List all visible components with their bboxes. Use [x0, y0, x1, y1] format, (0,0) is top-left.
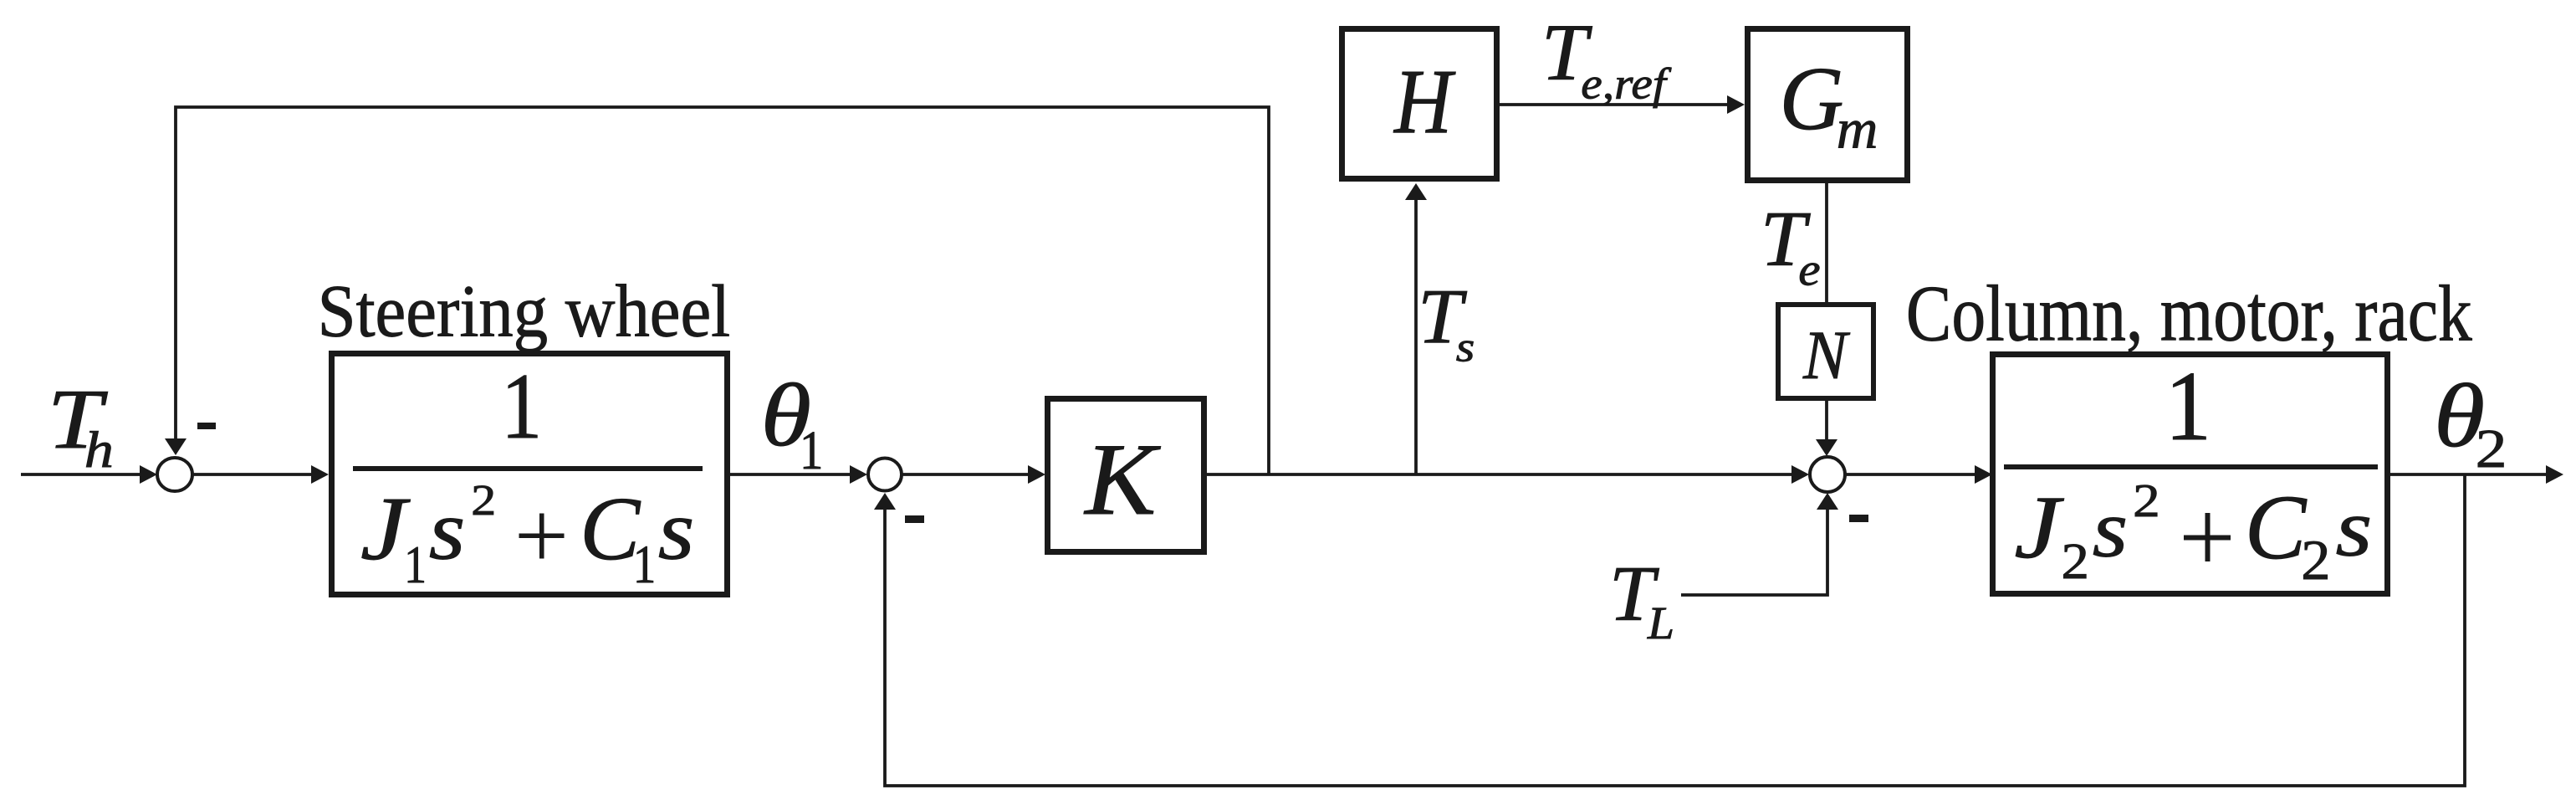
wire Ts branch up into block H: [1414, 198, 1418, 474]
svg-text:H: H: [1393, 51, 1456, 153]
summing junction 3: [1810, 457, 1845, 492]
wire block N down to summing junction 3: [1825, 401, 1828, 442]
svg-text:1: 1: [800, 420, 823, 481]
label theta1: [761, 365, 812, 464]
block1 denominator s: [429, 484, 466, 577]
svg-text:1: 1: [501, 354, 542, 458]
arrowhead into column block: [1975, 465, 1992, 484]
label TL - T: [1609, 549, 1660, 638]
svg-text:L: L: [1647, 598, 1674, 649]
svg-text:s: s: [429, 484, 466, 577]
svg-text:s: s: [658, 484, 695, 577]
block K: [1048, 399, 1204, 552]
svg-text:2: 2: [2133, 475, 2160, 527]
block2 denominator s: [2093, 484, 2128, 575]
block1 numerator 1: [501, 354, 542, 458]
arrowhead TL into summing junction 3: [1817, 493, 1838, 510]
wire summing junction 3 to column block: [1845, 473, 1978, 476]
fraction bar block 1: [353, 466, 703, 471]
block1 denominator superscript 2: [471, 477, 496, 525]
svg-text:2: 2: [2301, 528, 2330, 592]
svg-text:h: h: [84, 422, 114, 479]
block2 denominator C: [2245, 476, 2308, 578]
label theta1 subscript 1: [800, 420, 823, 481]
svg-text:e: e: [1798, 244, 1820, 295]
arrowhead final theta2 output: [2546, 465, 2563, 484]
label N: [1802, 318, 1851, 394]
arrowhead Th into summing junction 1: [140, 465, 157, 484]
arrowhead N output into summing junction 3: [1816, 439, 1837, 456]
svg-text:K: K: [1083, 423, 1161, 537]
fraction bar block 2: [2004, 464, 2378, 469]
summing junction 2: [868, 459, 902, 491]
block column motor rack 1/(J2s^2+C2s): [1993, 355, 2388, 594]
label Gm - G: [1780, 49, 1844, 149]
block1 denominator final s: [658, 484, 695, 577]
label K: [1083, 423, 1161, 537]
svg-text:J: J: [360, 479, 411, 579]
block1 denominator J: [360, 479, 411, 579]
wire steering-wheel block to summing junction 2 (theta1): [730, 473, 854, 476]
label Column, motor, rack: [1906, 270, 2472, 358]
wire summing junction 1 to steering-wheel block: [192, 473, 316, 476]
wire Th input arrow line: [21, 473, 142, 476]
svg-text:2: 2: [2476, 419, 2507, 479]
wire block K to summing junction 3 (Ts line): [1207, 473, 1796, 476]
block2 denominator J: [2014, 478, 2064, 577]
svg-text:2: 2: [2062, 532, 2089, 589]
block1 denominator C: [580, 479, 641, 579]
wire summing junction 2 to block K: [902, 473, 1034, 476]
svg-text:Column, motor, rack: Column, motor, rack: [1906, 270, 2472, 358]
arrowhead Te,ref into block Gm: [1727, 95, 1745, 114]
block2 denominator subscript 2 after J: [2062, 532, 2089, 589]
arrowhead into steering-wheel block: [311, 465, 329, 484]
wire column block output (theta2): [2390, 473, 2548, 476]
block Gm: [1748, 29, 1908, 181]
wire top feedback from K output up and back to summing junction 1: [176, 107, 1269, 474]
block1 denominator subscript 1 after J: [404, 536, 427, 594]
label Th - subscript h: [84, 422, 114, 479]
svg-text:N: N: [1802, 318, 1851, 394]
label Te,ref - T: [1541, 8, 1593, 97]
block2 denominator superscript 2: [2133, 475, 2160, 527]
block steering wheel 1/(J1s^2+C1s): [332, 354, 728, 595]
block H: [1342, 29, 1497, 179]
block N: [1778, 305, 1873, 398]
svg-text:s: s: [2336, 482, 2373, 573]
arrowhead into block K: [1028, 465, 1045, 484]
svg-text:1: 1: [2165, 351, 2212, 461]
svg-text:Steering wheel: Steering wheel: [318, 270, 731, 352]
svg-text:C: C: [2245, 476, 2308, 578]
block2 numerator 1: [2165, 351, 2212, 461]
svg-text:J: J: [2014, 478, 2064, 577]
plus sign in block 1 denominator: [519, 534, 565, 539]
label Te - subscript e: [1798, 244, 1820, 295]
label Steering wheel: [318, 270, 731, 352]
label Te - T: [1761, 194, 1812, 283]
minus sign at summing junction 2: [905, 515, 924, 523]
label H: [1393, 51, 1456, 153]
svg-text:e,ref: e,ref: [1581, 59, 1671, 108]
svg-text:s: s: [2093, 484, 2128, 575]
label Gm - subscript m: [1837, 97, 1878, 160]
minus sign at summing junction 1: [197, 423, 216, 429]
label theta2 subscript 2: [2476, 419, 2507, 479]
wire block H to block Gm (Te,ref): [1500, 103, 1732, 106]
arrowhead bottom feedback into summing junction 2: [874, 493, 896, 510]
block2 denominator subscript 2 after C: [2301, 528, 2330, 592]
block1 denominator subscript 1 after C: [633, 535, 657, 595]
svg-text:1: 1: [633, 535, 657, 595]
label Th - T: [48, 372, 109, 466]
wire TL input: [1681, 508, 1827, 595]
arrowhead top feedback into summing junction 1: [165, 438, 187, 455]
svg-text:m: m: [1837, 97, 1878, 160]
svg-text:1: 1: [404, 536, 427, 594]
label Ts - T: [1418, 274, 1468, 360]
svg-text:s: s: [1456, 324, 1475, 371]
minus sign at summing junction 3: [1849, 515, 1868, 522]
svg-text:G: G: [1780, 49, 1844, 149]
wire block Gm down to block N (Te): [1825, 183, 1828, 302]
label Ts - subscript s: [1456, 324, 1475, 371]
label theta2: [2434, 366, 2485, 466]
arrowhead main line into summing junction 3: [1791, 465, 1809, 484]
block2 denominator final s: [2336, 482, 2373, 573]
plus sign in block 2 denominator: [2184, 536, 2231, 541]
label TL - subscript L: [1647, 598, 1674, 649]
summing junction 1: [157, 458, 192, 491]
svg-text:2: 2: [471, 477, 496, 525]
arrowhead theta1 into summing junction 2: [850, 465, 867, 484]
wire bottom feedback from theta2 output back to summing junction 2: [885, 474, 2465, 786]
arrowhead Ts into block H: [1405, 183, 1427, 200]
label Te,ref - subscript e,ref: [1581, 59, 1671, 108]
